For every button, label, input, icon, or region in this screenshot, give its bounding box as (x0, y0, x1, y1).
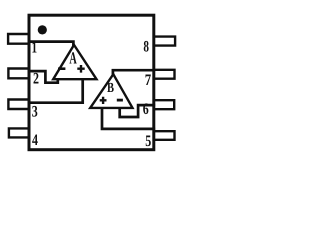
op-amp B minus sign (117, 99, 123, 102)
wire pin2 to op-amp A inverting input (29, 71, 58, 83)
pin 6 stub (154, 100, 174, 109)
svg-text:2: 2 (33, 71, 39, 88)
svg-text:6: 6 (143, 101, 149, 118)
svg-text:8: 8 (143, 39, 149, 56)
op-amp A minus sign (58, 67, 65, 70)
pin 3 stub (8, 100, 29, 110)
svg-text:3: 3 (32, 103, 38, 120)
svg-text:A: A (69, 48, 77, 67)
wire pin1 to op-amp A output (29, 42, 73, 46)
op-amp A plus sign (77, 65, 84, 73)
svg-text:4: 4 (32, 132, 38, 149)
pin 5 stub (154, 131, 175, 140)
wire op-amp B non-inverting input to pin5 (102, 108, 154, 129)
pin 4 stub (9, 128, 29, 137)
wire op-amp B inverting input to pin6 (120, 105, 154, 117)
wire pin3 to op-amp A non-inverting input (29, 79, 83, 103)
pin-1 index dot (38, 25, 47, 34)
pin 8 stub (154, 37, 175, 46)
op-amp B triangle (90, 74, 132, 108)
pin 1 stub (8, 34, 29, 44)
svg-text:B: B (107, 81, 114, 96)
IC body (DIP-8 outline) (29, 15, 154, 150)
svg-text:1: 1 (32, 39, 38, 56)
svg-text:5: 5 (145, 133, 151, 150)
pin 7 stub (154, 70, 175, 79)
pin 2 stub (8, 69, 29, 79)
wire op-amp B output to pin7 (113, 70, 154, 75)
op-amp B plus sign (100, 97, 107, 104)
svg-text:7: 7 (145, 72, 151, 89)
op-amp A triangle (53, 45, 96, 79)
